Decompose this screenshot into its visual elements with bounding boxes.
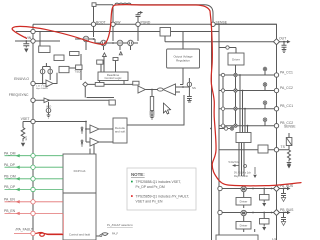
svg-text:FREQ/SYNC: FREQ/SYNC [9, 93, 29, 97]
svg-text:Px_DP and Px_DM: Px_DP and Px_DM [136, 185, 165, 189]
svg-text:VSET and Px_EN: VSET and Px_EN [136, 199, 163, 203]
svg-text:TSD: TSD [75, 70, 81, 74]
svg-text:Control and fault: Control and fault [69, 233, 90, 237]
svg-text:5.0A/3.0A: 5.0A/3.0A [229, 161, 240, 164]
svg-text:PA_CC2: PA_CC2 [280, 86, 293, 90]
svg-text:TPS25859-Q1 includes /Px_FAUL: TPS25859-Q1 includes /Px_FAULT, [136, 195, 190, 199]
svg-text:PB_DP: PB_DP [4, 185, 16, 189]
svg-text:Rsys / Rlimit: Rsys / Rlimit [234, 175, 248, 178]
svg-text:PB_BUS: PB_BUS [280, 208, 294, 212]
svg-text:DCP hub: DCP hub [74, 169, 86, 173]
svg-text:SENSE: SENSE [216, 20, 228, 24]
svg-text:BOOT: BOOT [96, 20, 106, 24]
svg-text:PA_EN: PA_EN [4, 198, 15, 202]
svg-text:Control Logic: Control Logic [104, 76, 122, 80]
svg-text:Px_/FAULT asserts lo: Px_/FAULT asserts lo [107, 223, 133, 227]
svg-text:PB_EN: PB_EN [4, 209, 16, 213]
svg-text:NOTE:: NOTE: [131, 172, 145, 177]
svg-text:PB_DM: PB_DM [4, 175, 16, 179]
svg-text:Regulation: Regulation [176, 59, 190, 63]
svg-text:SENSE: SENSE [284, 125, 296, 129]
svg-text:PA_DP: PA_DP [4, 163, 16, 167]
svg-text:Hyst 100mV: Hyst 100mV [36, 87, 48, 90]
svg-text:VCO: VCO [46, 105, 51, 108]
svg-text:TS: TS [281, 145, 286, 149]
svg-text:Driver: Driver [240, 200, 248, 204]
svg-text:PA_CC1: PA_CC1 [280, 71, 293, 75]
svg-text:PA_DM: PA_DM [4, 151, 16, 155]
svg-text:EN/UVLO: EN/UVLO [14, 77, 29, 81]
svg-text:SW: SW [115, 20, 121, 24]
svg-text:TPS25858-Q1 includes VSET,: TPS25858-Q1 includes VSET, [136, 180, 181, 184]
svg-text:PA_F: PA_F [112, 232, 119, 235]
svg-text:Driver: Driver [232, 58, 240, 62]
svg-text:Driver: Driver [240, 224, 248, 228]
svg-text:PGND: PGND [141, 20, 151, 24]
svg-text:/PA_FAULT: /PA_FAULT [16, 228, 33, 232]
svg-text:and soft: and soft [115, 130, 125, 134]
svg-text:PB_CC1: PB_CC1 [280, 104, 293, 108]
svg-text:SS: SS [192, 86, 196, 90]
svg-text:OUT: OUT [279, 37, 286, 41]
svg-text:VSET: VSET [21, 117, 30, 121]
